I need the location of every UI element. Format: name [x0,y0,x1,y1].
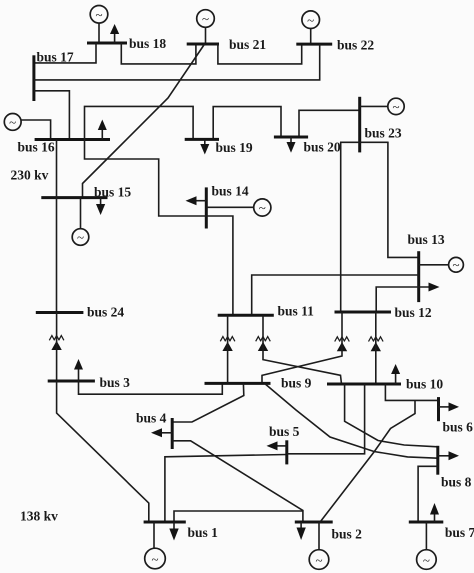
bus 4 bar [171,418,174,449]
wire transformer 9-12 [262,312,342,383]
wire 1-2 [174,511,303,522]
wire 8-9 [265,383,438,458]
generator G22 [302,11,320,29]
load arrow bus 7 [430,503,439,522]
bus 3 bar [48,380,95,383]
svg-text:bus 8: bus 8 [441,475,472,490]
wire 12-13 [376,287,429,312]
wire G2 stem [318,522,320,550]
svg-text:bus 2: bus 2 [332,527,363,542]
wire 5-10 [287,384,365,454]
bus 14 bar [205,187,208,228]
svg-text:bus 3: bus 3 [100,375,131,390]
svg-text:~: ~ [95,7,102,22]
svg-text:~: ~ [423,553,430,568]
generator G7 [417,550,437,570]
transformer 10-11 [256,337,271,351]
bus 6 bar [437,397,440,421]
generator G15 [72,229,89,246]
bus 24 bar [36,311,84,314]
svg-text:bus 4: bus 4 [136,411,167,426]
wire 14-16 [85,140,207,217]
generator G2 [309,550,329,570]
load arrow bus 14 [186,196,207,205]
wire 16-19 [85,106,194,139]
bus 21 bar [187,43,219,46]
generator G14 [254,199,271,216]
wire G23 lead [360,105,388,107]
wire 23 junction crossbar [340,141,389,143]
generator G1 [145,548,166,569]
bus 19 bar [185,138,219,141]
bus 13 bar [417,251,420,302]
load arrow bus 3 [74,359,83,381]
bus 17 bar [32,55,35,101]
load arrow bus 15 [96,198,105,215]
bus 10 bar [327,383,401,386]
wire 3-9 [79,381,223,394]
wire G18 stem [98,24,100,44]
svg-text:bus 18: bus 18 [129,36,166,51]
load arrow bus 18 [110,24,119,43]
wire transformer 10-12 [375,312,377,384]
wire 2-6 [321,400,416,521]
wire 7-8 [418,466,438,522]
bus 23 bar [358,97,361,153]
svg-text:bus 14: bus 14 [212,184,249,199]
svg-text:bus 19: bus 19 [216,140,253,155]
svg-text:~: ~ [9,115,16,130]
bus 5 bar [285,440,288,464]
bus 16 bar [35,138,110,141]
wire 16-17 [34,91,70,140]
svg-text:bus 11: bus 11 [278,304,315,319]
svg-text:bus 13: bus 13 [408,232,445,247]
wire 8-10 [345,384,438,447]
wire 6-10 [385,384,438,400]
bus 20 bar [274,136,308,139]
wire G1 stem [153,522,155,548]
transformer 9-11 [220,337,235,351]
wire G16 lead [21,120,50,140]
load arrow bus 2 [297,522,306,540]
wire 18-21 [121,43,196,64]
bus 9 bar [205,382,271,385]
generator G13 [449,257,464,272]
svg-text:230 kv: 230 kv [11,168,49,183]
wire transformer 9-11 [227,315,229,382]
wire 15-21 diagonal [83,44,205,198]
svg-text:~: ~ [392,99,399,114]
wire 2-4 [172,441,303,522]
svg-text:~: ~ [452,257,459,272]
svg-text:bus 10: bus 10 [406,377,443,392]
bus 8 bar [436,446,439,475]
wire 17-18 [34,43,96,63]
wire 1-3 [57,381,149,522]
load arrow bus 5 [267,441,287,450]
load arrow bus 13 [429,283,440,292]
wire 23-13 [388,142,419,257]
bus 15 bar [41,196,107,199]
wire 23-12 [340,142,342,312]
wire 21-22 [218,44,302,64]
svg-text:~: ~ [315,553,322,568]
wire 20-23 [299,110,360,137]
svg-text:bus 23: bus 23 [365,126,402,141]
wire 19-20 [213,107,281,140]
wire 4-9 [172,383,244,422]
svg-text:bus 9: bus 9 [281,376,312,391]
generator G23 [388,98,404,114]
load arrow bus 19 [200,139,209,154]
load arrow bus 10 [391,364,400,384]
svg-text:bus 22: bus 22 [337,38,374,53]
wire G13 lead [419,264,449,266]
svg-text:138 kv: 138 kv [20,509,58,524]
generator G16 [4,114,21,131]
wire G7 stem [425,522,427,550]
transformer 9-12 [335,337,350,351]
svg-text:bus 24: bus 24 [87,305,124,320]
svg-text:bus 1: bus 1 [188,525,219,540]
svg-text:bus 7: bus 7 [445,525,474,540]
wire 11-13 [252,275,419,315]
bus 18 bar [87,42,127,45]
svg-text:bus 5: bus 5 [269,424,300,439]
wire 11-14 [206,216,233,315]
svg-text:bus 17: bus 17 [37,50,74,65]
svg-text:bus 20: bus 20 [304,140,341,155]
wire G14 lead [206,206,253,208]
bus 7 bar [409,521,444,524]
load arrow bus 8 [438,451,459,460]
load arrow bus 16 [98,120,107,140]
load arrow bus 4 [151,428,172,437]
wire 16-15-24 [56,140,58,313]
svg-text:bus 15: bus 15 [94,184,131,199]
transformer 10-12 [369,337,384,351]
bus 1 bar [144,521,186,524]
load arrow bus 6 [439,402,460,411]
svg-text:bus 12: bus 12 [395,305,432,320]
bus 2 bar [295,521,333,524]
svg-text:~: ~ [259,200,266,215]
load arrow bus 1 [169,522,178,541]
svg-text:~: ~ [151,552,158,567]
wire 17-22 [34,44,320,80]
generator G21 [197,10,215,28]
load arrow bus 20 [287,137,296,153]
bus 11 bar [218,314,274,317]
wire 24-3 [56,313,58,382]
svg-text:~: ~ [307,12,314,27]
wire G22 stem [310,29,312,44]
wire 1-5 [165,455,287,523]
transformer 3-24 [49,336,64,350]
svg-text:bus 21: bus 21 [229,37,266,52]
wire transformer 10-11 [263,315,342,384]
bus 12 bar [335,311,392,314]
svg-text:bus 16: bus 16 [18,140,55,155]
svg-text:~: ~ [77,230,84,245]
svg-text:~: ~ [202,11,209,26]
generator G18 [90,6,108,24]
bus 22 bar [296,43,332,46]
wire G21 stem [205,28,207,45]
wire G15 stem [80,198,82,229]
svg-text:bus 6: bus 6 [443,420,474,435]
